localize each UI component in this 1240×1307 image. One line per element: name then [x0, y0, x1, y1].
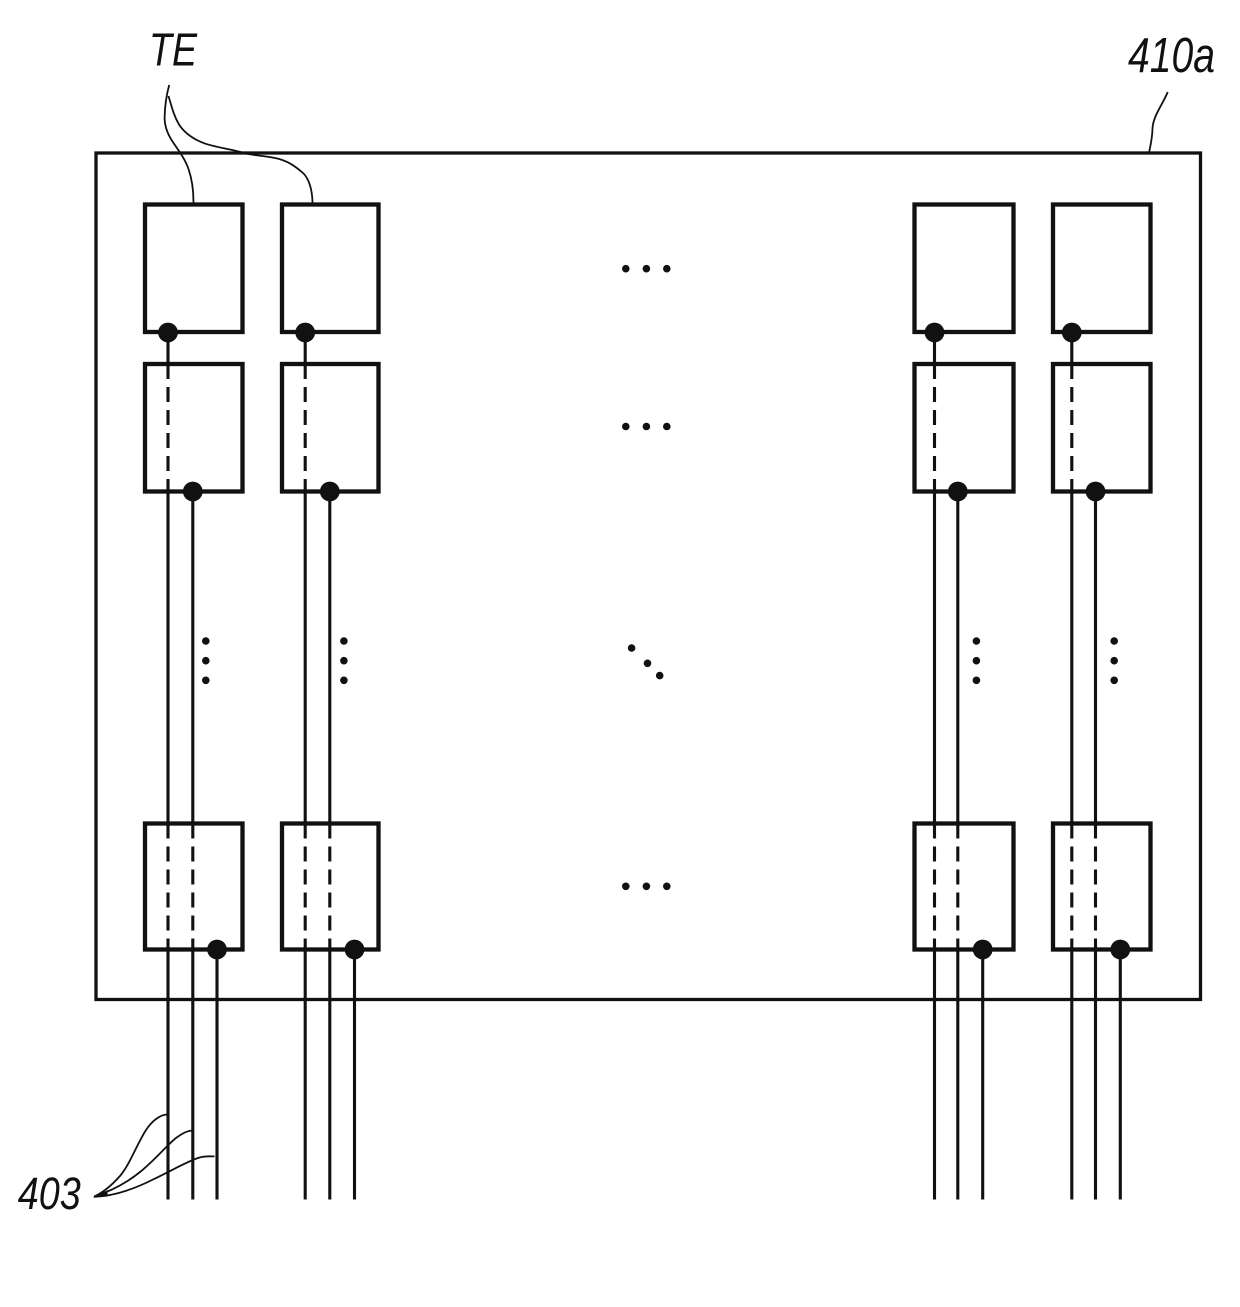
touch electrode TE row1 col1 — [145, 205, 243, 333]
touch electrode TE row2 col1 — [145, 364, 243, 492]
ellipsis dots vertical column4 — [1110, 637, 1118, 684]
leader line 403 to wire2 — [94, 1131, 192, 1197]
ellipsis dots vertical column2 — [340, 637, 348, 684]
touch electrode TE row1 col2 — [282, 205, 379, 333]
leader line 403 to wire1 — [94, 1115, 167, 1197]
touch electrode TE row2 col4 — [1053, 364, 1151, 492]
ellipsis dots row3 — [622, 883, 671, 891]
touch electrode TE row1 col3 — [915, 205, 1014, 333]
svg-text:410a: 410a — [1128, 29, 1215, 83]
ellipsis dots diagonal center — [628, 644, 664, 679]
wires column1 — [168, 333, 217, 1200]
junction dots column1 — [158, 323, 227, 960]
ellipsis dots vertical column1 — [202, 637, 210, 684]
svg-text:403: 403 — [18, 1168, 81, 1219]
leader line 403 to wire3 — [94, 1156, 215, 1197]
touch electrode TE row2 col2 — [282, 364, 379, 492]
wires column2 — [305, 333, 354, 1200]
wires column3 — [935, 333, 983, 1200]
touch electrode TE row3 col2 — [282, 824, 379, 950]
wires column4 — [1072, 333, 1121, 1200]
touch electrode TE row3 col4 — [1053, 824, 1151, 950]
ellipsis dots vertical column3 — [973, 637, 981, 684]
touch electrode TE row3 col3 — [915, 824, 1014, 950]
leader line TE to electrode r1c1 — [165, 85, 194, 203]
touch electrode TE row1 col4 — [1053, 205, 1151, 333]
leader line 410a to panel — [1149, 92, 1168, 153]
ellipsis dots row2 — [622, 423, 671, 431]
junction dots column3 — [925, 323, 993, 960]
leader line TE to electrode r1c2 — [169, 96, 313, 203]
touch electrode TE row3 col1 — [145, 824, 243, 950]
ellipsis dots row1 — [622, 265, 671, 273]
junction dots column4 — [1062, 323, 1130, 960]
leader arrowhead 403 — [93, 1190, 108, 1197]
junction dots column2 — [295, 323, 364, 960]
panel 410a outline — [96, 153, 1201, 1000]
svg-text:TE: TE — [149, 24, 198, 76]
touch electrode TE row2 col3 — [915, 364, 1014, 492]
